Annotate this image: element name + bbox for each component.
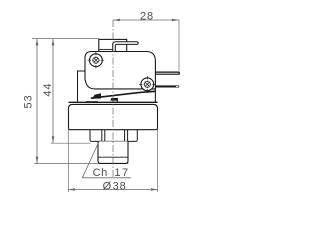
bell cover top seam xyxy=(77,103,154,105)
centerline (vertical dash-dot axis) xyxy=(112,20,114,178)
crimped hex band xyxy=(90,130,137,142)
microswitch body xyxy=(85,52,155,89)
dimension 53 top arrow xyxy=(36,39,39,46)
threaded stud xyxy=(98,141,128,163)
svg-text:Ø: Ø xyxy=(103,180,112,192)
diameter 38 extension line left xyxy=(67,128,69,192)
dimension 53 line xyxy=(36,39,38,164)
plunger collar line xyxy=(99,48,113,50)
leader line for Ch 17 xyxy=(82,141,99,178)
bell cover outline xyxy=(69,104,158,129)
thread chamfer line xyxy=(98,156,128,158)
dimension 53 bottom arrow xyxy=(36,157,39,164)
plunger (push button) xyxy=(99,39,127,51)
dimension 44 top arrow xyxy=(52,39,55,46)
svg-text:44: 44 xyxy=(42,83,54,97)
lever left end block xyxy=(92,93,101,99)
center post (operating pin) xyxy=(113,98,117,103)
terminal blade upper xyxy=(155,72,179,75)
dimension 28 left arrow xyxy=(113,19,120,22)
dimension 28 line xyxy=(113,19,179,21)
extension line bottom of 44 xyxy=(51,142,91,144)
top extension line (plunger top reference) xyxy=(32,38,99,40)
svg-text:28: 28 xyxy=(140,10,154,22)
left support bracket xyxy=(78,71,86,102)
housing flange upper line xyxy=(69,101,158,103)
right mounting screw xyxy=(139,76,156,93)
svg-text:17: 17 xyxy=(114,167,129,179)
left mounting screw xyxy=(88,52,105,69)
diameter 38 right arrow xyxy=(151,188,158,191)
dimension diameter 38 line xyxy=(68,189,158,191)
svg-text:53: 53 xyxy=(23,94,35,108)
note underline Ch 17 xyxy=(82,177,131,179)
extension line bottom of 53 xyxy=(34,163,129,165)
housing right edge below switch xyxy=(154,89,156,102)
svg-text:Ch: Ch xyxy=(93,167,108,179)
svg-text:38: 38 xyxy=(113,180,127,192)
actuating lever blade xyxy=(91,91,156,98)
diameter 38 left arrow xyxy=(68,188,75,191)
dimension 28 right arrow xyxy=(172,19,179,22)
diameter 38 extension line right xyxy=(157,129,159,193)
bracket foot line xyxy=(86,101,98,103)
center post cap xyxy=(110,98,118,101)
extension line right of 28 xyxy=(178,20,180,71)
dimension 44 line xyxy=(52,39,54,144)
terminal blade lower xyxy=(155,85,179,87)
dimension 44 bottom arrow xyxy=(52,136,55,143)
auxiliary lever on plunger xyxy=(113,42,139,52)
